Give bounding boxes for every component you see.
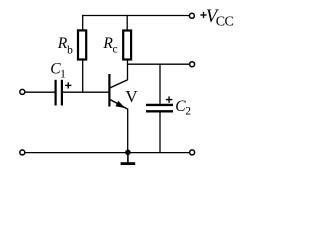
wire C1 to base [63,91,109,93]
wire top rail Rb/Rc to +Vcc [82,15,189,17]
wire Rb bottom lead to base node [82,60,84,93]
wire Rc top lead [126,15,128,31]
svg-text:1: 1 [60,69,66,81]
junction dot emitter-ground node [125,150,131,156]
ground stem [127,153,129,163]
capacitor C1 [54,80,56,106]
wire C2 bottom lead [159,113,161,153]
transistor V emitter slant [110,100,128,110]
terminal output top [190,62,195,67]
terminal input bottom [20,150,25,155]
wire Rc bottom lead to collector node [127,60,129,80]
capacitor C2 [146,104,173,106]
transistor V base bar [108,74,110,107]
transistor V collector slant [110,80,128,88]
svg-text:c: c [113,43,118,55]
wire Rb top lead [82,15,84,31]
wire emitter down [127,109,129,153]
transistor V emitter arrow [115,101,125,108]
wire C2 top lead [159,64,161,104]
svg-text:CC: CC [216,14,234,29]
wire input to C1 [25,91,55,93]
label +Vcc plus [200,14,206,16]
wire collector node to output [127,63,190,65]
ground bar [121,162,136,165]
terminal output bottom [190,150,195,155]
svg-text:2: 2 [185,106,191,118]
resistor Rb [78,30,86,59]
plus sign C1 [65,84,71,86]
svg-text:V: V [125,87,138,106]
resistor Rc [123,31,131,60]
terminal +Vcc [189,13,194,18]
terminal input top [20,89,25,94]
svg-text:b: b [67,44,73,56]
plus sign C2 [166,99,173,101]
wire bottom rail [25,152,190,154]
